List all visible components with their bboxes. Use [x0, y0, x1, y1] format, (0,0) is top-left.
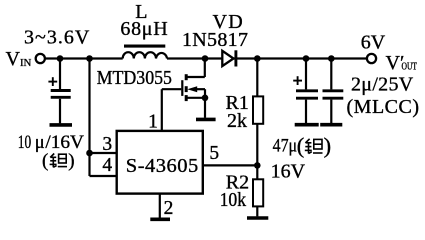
svg-text:6V: 6V [361, 32, 386, 54]
svg-text:1N5817: 1N5817 [182, 29, 248, 51]
svg-text:): ) [324, 133, 332, 158]
svg-text:47μ: 47μ [273, 135, 298, 156]
svg-text:): ) [68, 151, 74, 172]
svg-text:(MLCC): (MLCC) [347, 96, 420, 118]
svg-text:1: 1 [148, 112, 158, 133]
svg-text:S-43605: S-43605 [126, 155, 199, 177]
svg-text:5: 5 [209, 143, 219, 164]
svg-text:(: ( [42, 151, 48, 172]
svg-text:4: 4 [102, 155, 112, 176]
svg-text:2k: 2k [227, 110, 247, 132]
svg-text:10k: 10k [220, 189, 247, 211]
svg-text:3: 3 [102, 134, 112, 155]
svg-text:68μH: 68μH [120, 18, 168, 40]
svg-text:MTD3055: MTD3055 [97, 68, 172, 89]
svg-text:2: 2 [164, 198, 174, 219]
svg-text:3~3.6V: 3~3.6V [24, 27, 90, 49]
svg-text:2μ/25V: 2μ/25V [351, 73, 414, 95]
svg-text:(: ( [297, 133, 305, 158]
svg-text:16V: 16V [271, 160, 306, 182]
